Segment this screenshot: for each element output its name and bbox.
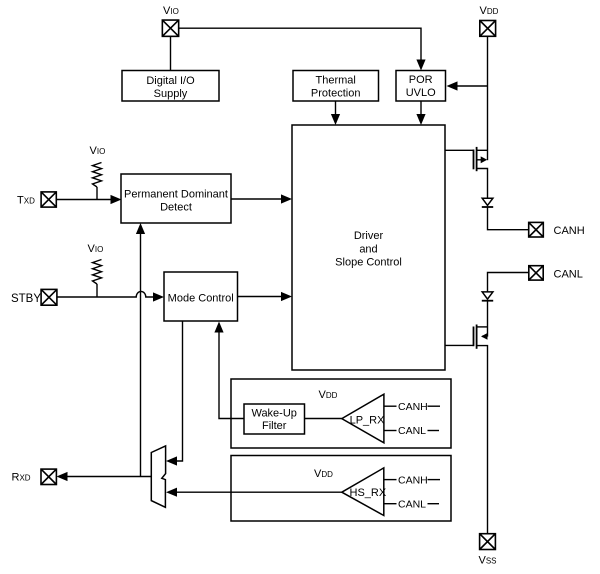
svg-text:CANH: CANH (398, 474, 428, 486)
svg-text:Slope Control: Slope Control (335, 257, 402, 269)
svg-text:Mode Control: Mode Control (168, 292, 234, 304)
svg-text:UVLO: UVLO (406, 87, 436, 99)
svg-text:Thermal: Thermal (316, 75, 356, 87)
svg-text:VIO: VIO (90, 145, 106, 157)
svg-text:Driver: Driver (354, 230, 384, 242)
svg-text:Protection: Protection (311, 88, 361, 100)
svg-text:RXD: RXD (12, 472, 31, 484)
svg-text:CANL: CANL (554, 268, 583, 280)
svg-text:Wake-Up: Wake-Up (251, 407, 296, 419)
svg-text:HS_RX: HS_RX (350, 487, 387, 499)
svg-text:VDD: VDD (480, 5, 499, 17)
svg-text:VSS: VSS (479, 555, 497, 567)
svg-text:VIO: VIO (88, 243, 104, 255)
svg-text:VIO: VIO (163, 5, 179, 17)
svg-text:Supply: Supply (154, 88, 188, 100)
svg-text:VDD: VDD (314, 468, 333, 480)
svg-text:CANL: CANL (398, 499, 426, 511)
svg-text:Digital I/O: Digital I/O (146, 75, 195, 87)
svg-text:CANL: CANL (398, 425, 426, 437)
svg-text:Detect: Detect (160, 202, 192, 214)
svg-text:CANH: CANH (398, 401, 428, 413)
svg-text:Filter: Filter (262, 420, 287, 432)
svg-text:and: and (359, 243, 377, 255)
svg-text:TXD: TXD (17, 195, 35, 207)
svg-text:VDD: VDD (319, 389, 338, 401)
svg-text:LP_RX: LP_RX (350, 414, 386, 426)
svg-text:POR: POR (409, 74, 433, 86)
svg-text:CANH: CANH (554, 225, 585, 237)
svg-text:STBY: STBY (11, 293, 41, 305)
svg-text:Permanent Dominant: Permanent Dominant (124, 188, 228, 200)
